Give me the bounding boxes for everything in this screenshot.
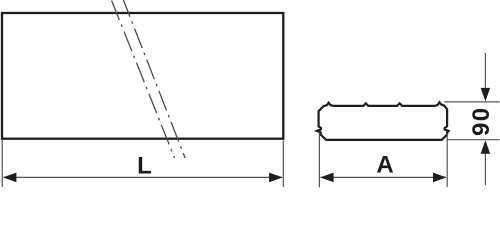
arrowhead 90 bottom (pointing up) [481, 140, 491, 154]
arrowhead L left [3, 173, 17, 183]
svg-text:A: A [376, 151, 393, 178]
extension line left of A [318, 133, 320, 188]
svg-text:L: L [137, 153, 152, 180]
extension line left of L [1, 140, 3, 187]
duct body rectangle (side view) [2, 13, 283, 139]
arrowhead A right [433, 173, 447, 183]
arrowhead A left [320, 173, 334, 183]
arrowhead 90 top (pointing down) [481, 88, 491, 102]
extension line right of A [446, 133, 448, 187]
svg-text:90: 90 [468, 106, 495, 136]
dimension line A [321, 176, 446, 178]
leader above 90 [484, 53, 486, 99]
extension line right of L [282, 140, 284, 187]
extension line top of 90 [444, 101, 499, 103]
leader below 90 [484, 142, 486, 185]
break line 1 (dash-dot) [111, 0, 174, 158]
duct cross-section profile [317, 102, 449, 140]
extension line bottom of 90 [447, 139, 499, 141]
dimension line L [3, 176, 282, 178]
break line 2 (dash-dot) [123, 0, 185, 158]
arrowhead L right [269, 173, 283, 183]
